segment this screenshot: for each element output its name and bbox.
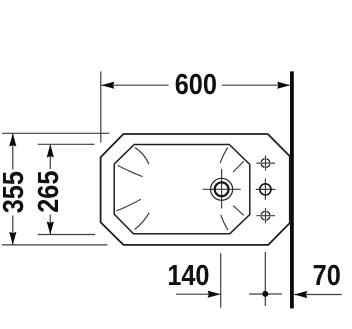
svg-text:140: 140 <box>167 259 209 292</box>
faucet hole outer circle <box>211 178 233 200</box>
dimension line 600 <box>101 84 289 86</box>
bidet inner bowl rim (octagon outline) <box>114 145 250 234</box>
dimension line 355 <box>12 134 14 244</box>
arrowhead 70 left <box>294 291 307 298</box>
arrowhead 140 right <box>208 291 221 298</box>
svg-text:70: 70 <box>313 259 341 292</box>
bidet outer rim (octagon outline) <box>101 134 290 245</box>
drain centre horizontal line <box>249 293 282 295</box>
arrowhead 355 bottom <box>9 232 16 245</box>
bowl slope line left-upper <box>118 165 143 176</box>
tap hole middle (circle with crosshair) <box>256 179 276 200</box>
bowl slope line lower-right chamfer <box>233 206 244 216</box>
extension line for 140 <box>220 253 222 308</box>
svg-text:355: 355 <box>0 171 30 213</box>
tap hole option bottom (dashed circle with crosshair) <box>256 208 275 223</box>
bowl slope line bottom-left <box>135 213 150 230</box>
extension line bottom for 355 <box>2 244 107 246</box>
bowl slope line left-lower <box>116 199 141 211</box>
extension line bottom for 265 <box>38 234 95 236</box>
wall line <box>290 71 294 308</box>
arrowhead 355 top <box>9 133 16 146</box>
drain centre dot <box>262 291 268 297</box>
faucet hole crosshair <box>203 169 241 209</box>
extension line left for 600 <box>100 71 102 142</box>
tap hole option top (dashed circle with crosshair) <box>256 155 275 170</box>
svg-text:265: 265 <box>32 171 65 213</box>
arrowhead 265 bottom <box>47 222 54 235</box>
extension line top for 355 <box>2 132 109 134</box>
bowl slope line top-right <box>220 147 228 163</box>
dimension line 70 <box>294 294 342 296</box>
bowl slope line top-left <box>135 148 149 165</box>
svg-text:600: 600 <box>175 68 217 101</box>
drain centre vertical line <box>264 252 266 306</box>
extension line top for 265 <box>38 143 95 145</box>
arrowhead 600 left <box>101 82 114 89</box>
dimension line 140 <box>176 293 220 295</box>
arrowhead 600 right <box>277 82 290 89</box>
dimension line 265 <box>49 145 51 234</box>
faucet hole inner circle <box>215 182 229 196</box>
bowl slope line bottom-right <box>221 215 228 230</box>
arrowhead 265 top <box>47 144 54 157</box>
bowl slope line upper-right chamfer <box>233 161 244 172</box>
